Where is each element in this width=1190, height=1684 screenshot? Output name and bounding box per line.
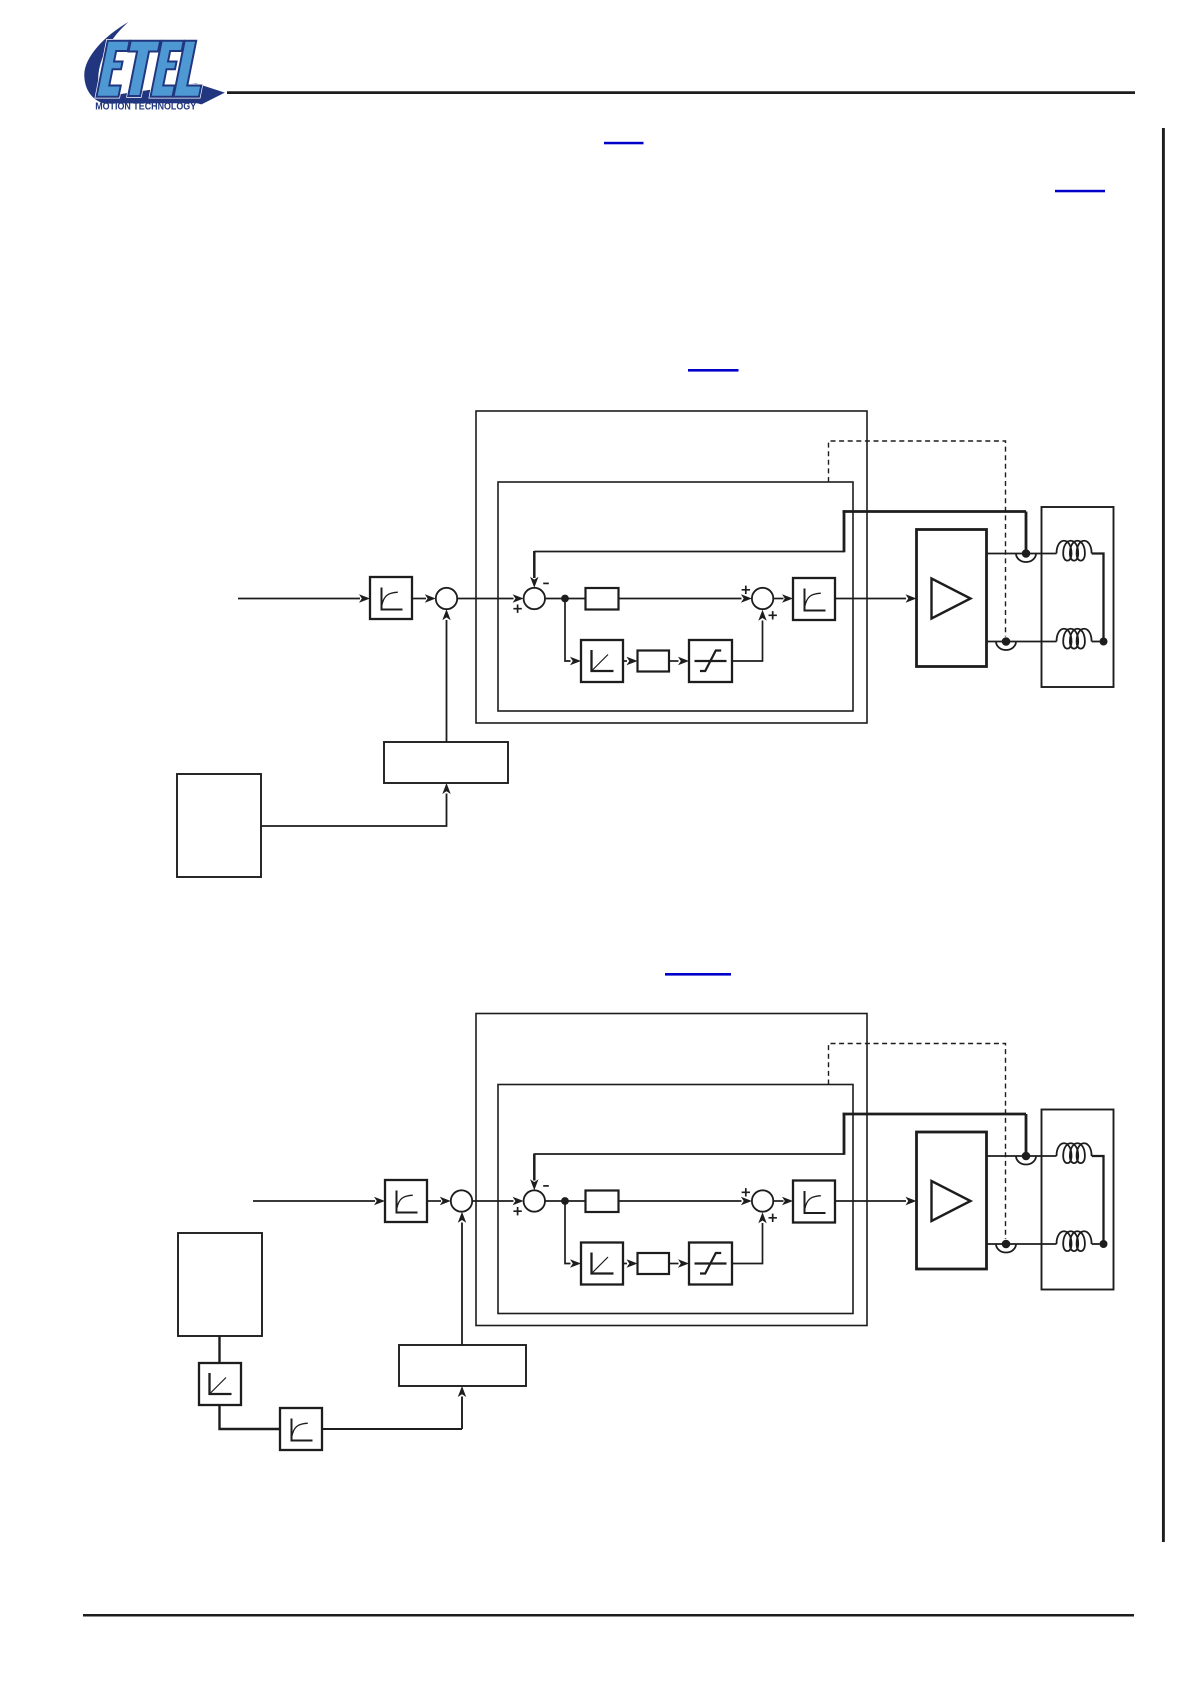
hyperlink underline 1	[604, 142, 644, 145]
d2 wire S2 to gain	[545, 1200, 586, 1202]
svg-text:MOTION TECHNOLOGY: MOTION TECHNOLOGY	[95, 102, 196, 113]
d1 wire G2 to saturation	[669, 660, 679, 662]
d1 arrowhead into integrator	[570, 657, 581, 665]
d2 wire S1 to S2	[472, 1200, 513, 1202]
d2 arrowhead down into S2	[530, 1179, 538, 1190]
hyperlink underline 2	[1055, 190, 1105, 193]
d2 plus sign lower-right at S3	[769, 1214, 777, 1222]
d1 summing junction S3	[752, 588, 773, 609]
d2 wire reference to integrator	[218, 1336, 220, 1363]
d2 plus sign at S2	[513, 1207, 521, 1215]
d1 amplifier triangle symbol	[932, 579, 971, 619]
d1 arrowhead into G2	[627, 657, 638, 665]
d2 gain block G2	[638, 1253, 670, 1274]
d1 saturation block	[689, 640, 732, 682]
d2 motor winding lower	[1057, 1231, 1092, 1251]
d2 wire branch down to integrator	[565, 1201, 571, 1264]
d1 input command wire	[238, 598, 360, 600]
d1 arrowhead into input filter	[359, 594, 370, 602]
d2 integrator block (chain)	[199, 1363, 241, 1405]
logo ETEL letters	[96, 41, 210, 97]
d2 winding junction node	[1100, 1240, 1108, 1248]
d1 summing junction S2	[524, 588, 545, 609]
d2 wire chain up to sensor block	[461, 1397, 463, 1430]
d1 arrowhead up into sensor block	[442, 783, 450, 794]
d2 connector terminal upper	[1016, 1152, 1036, 1165]
d2 wire F2 to power amplifier	[835, 1200, 906, 1202]
d2 wire filter to sensor column	[322, 1428, 462, 1430]
d2 outer position-loop box	[476, 1014, 867, 1326]
d1 wire S2 to gain	[545, 598, 586, 600]
d1 arrowhead into S3	[741, 594, 752, 602]
d1 phase wire lower	[987, 641, 1057, 643]
d1 encoder block	[177, 774, 261, 877]
d2 phase wire upper	[987, 1155, 1057, 1157]
d2 wire integrator to gain G2	[623, 1263, 627, 1265]
d2 low-pass filter block F2	[793, 1181, 835, 1223]
d1 arrowhead down into S2	[530, 577, 538, 588]
d1 summing junction S1	[436, 588, 457, 609]
d2 power amplifier block	[917, 1132, 987, 1269]
d1 minus sign at S2	[543, 582, 549, 584]
d1 winding junction node	[1100, 638, 1108, 646]
d1 junction node	[561, 595, 569, 603]
d1 wire F1 to S1	[412, 598, 426, 600]
d2 low-pass filter block (chain)	[280, 1408, 322, 1450]
d2 summing junction S2	[524, 1190, 545, 1211]
d2 motor winding upper	[1057, 1143, 1092, 1163]
d1 wire gain to S3	[619, 598, 742, 600]
d2 arrowhead into S3	[741, 1197, 752, 1205]
header rule	[227, 91, 1135, 94]
hyperlink underline 4 (Figure ref, diagram 2)	[665, 973, 731, 976]
d2 reference block	[178, 1233, 262, 1336]
d2 phase wire lower	[987, 1243, 1057, 1245]
d1 wire integrator to gain G2	[623, 660, 627, 662]
d2 summing junction S1	[451, 1190, 472, 1211]
d1 arrowhead into S2	[513, 594, 524, 602]
d2 winding lower link	[1092, 1243, 1100, 1245]
d1 arrowhead into power amplifier	[906, 594, 917, 602]
d2 wire integrator to filter	[220, 1404, 281, 1429]
d2 wire S3 to F2	[773, 1200, 783, 1202]
d1 power amplifier block	[917, 530, 987, 667]
d1 dashed current-measurement path	[829, 441, 1006, 637]
d2 position sensor block	[399, 1345, 526, 1386]
d1 plus sign lower-right at S3	[769, 611, 777, 619]
ETEL logo	[84, 22, 225, 113]
d1 current feedback drop to S2	[533, 551, 536, 578]
d2 current feedback riser	[843, 1113, 846, 1155]
d1 wire S3 to F2	[773, 598, 783, 600]
d1 position feedback wire to S1	[446, 620, 448, 742]
d1 current feedback wire horizontal	[534, 551, 844, 553]
d2 dashed current-measurement path	[829, 1044, 1006, 1240]
d2 saturation block	[689, 1243, 732, 1285]
d2 arrowhead into G2	[627, 1259, 638, 1267]
footer rule	[83, 1614, 1134, 1617]
d1 outer position-loop box	[476, 411, 867, 723]
logo baseline band and arrow	[100, 83, 225, 104]
d2 gain block G1	[586, 1191, 619, 1213]
d2 arrowhead into S2	[513, 1197, 524, 1205]
d1 connector terminal upper	[1016, 549, 1036, 562]
d1 low-pass filter block F2	[793, 578, 835, 620]
d2 winding link wire	[1092, 1156, 1104, 1244]
d2 junction node	[561, 1197, 569, 1205]
d2 input command wire	[253, 1200, 375, 1202]
d2 wire F1 to S1	[427, 1200, 441, 1202]
d1 wire encoder to sensor block	[261, 794, 447, 827]
d2 connector terminal lower	[996, 1240, 1016, 1253]
d2 minus sign at S2	[543, 1185, 549, 1187]
d2 summing junction S3	[752, 1190, 773, 1211]
d2 input low-pass filter block F1	[385, 1180, 427, 1222]
d2 wire G2 to saturation	[669, 1263, 679, 1265]
logo swoosh	[84, 22, 128, 104]
d1 inner current-loop box	[498, 482, 853, 711]
d2 arrowhead up into S1	[458, 1212, 466, 1223]
d2 arrowhead into integrator	[570, 1259, 581, 1267]
d1 current feedback riser	[843, 510, 846, 552]
hyperlink underline 3 (Figure ref, diagram 1)	[688, 369, 739, 372]
d2 arrowhead into F2	[782, 1197, 793, 1205]
d1 wire S1 to S2	[457, 598, 513, 600]
d2 arrowhead into input filter	[374, 1197, 385, 1205]
d1 arrowhead up into S3	[758, 610, 766, 621]
d1 arrowhead into S1	[425, 594, 436, 602]
d1 arrowhead into F2	[782, 594, 793, 602]
d1 wire saturation up to S3	[732, 621, 763, 662]
d1 arrowhead up into S1	[442, 609, 450, 620]
d1 input low-pass filter block F1	[370, 577, 412, 619]
d2 integrator block	[581, 1243, 623, 1285]
d1 winding lower link	[1092, 641, 1100, 643]
d1 winding link wire	[1092, 554, 1104, 642]
d1 plus sign at S2	[513, 605, 521, 613]
d1 integrator block	[581, 640, 623, 682]
d2 arrowhead into power amplifier	[906, 1197, 917, 1205]
d1 gain block G2	[638, 651, 670, 672]
d2 current sense wire from motor	[843, 1113, 1026, 1116]
d2 wire saturation up to S3	[732, 1223, 763, 1264]
d1 phase wire upper	[987, 553, 1057, 555]
d1 motor winding lower	[1057, 629, 1092, 649]
d2 arrowhead into saturation	[678, 1259, 689, 1267]
d2 arrowhead up into S3	[758, 1212, 766, 1223]
d2 wire gain to S3	[619, 1200, 742, 1202]
right margin rule	[1162, 128, 1165, 1542]
d1 gain block G1	[586, 588, 619, 610]
d2 motor block	[1042, 1110, 1114, 1290]
d2 amplifier triangle symbol	[932, 1181, 971, 1221]
d2 current feedback drop to S2	[533, 1154, 536, 1181]
d2 plus sign upper-left at S3	[742, 1188, 750, 1196]
d1 motor winding upper	[1057, 541, 1092, 561]
d1 current sense tap down to terminal	[1025, 512, 1028, 551]
d2 current sense tap down to terminal	[1025, 1114, 1028, 1153]
d2 position feedback wire to S1	[461, 1223, 463, 1346]
d1 arrowhead into saturation	[678, 657, 689, 665]
d1 motor block	[1042, 507, 1114, 687]
d1 connector terminal lower	[996, 637, 1016, 650]
d1 plus sign upper-left at S3	[742, 586, 750, 594]
d1 position sensor block	[384, 742, 508, 783]
d1 wire branch down to integrator	[565, 599, 571, 662]
d2 arrowhead up into sensor block	[458, 1386, 466, 1397]
d2 inner current-loop box	[498, 1085, 853, 1314]
d2 arrowhead into S1	[440, 1197, 451, 1205]
d2 current feedback wire horizontal	[534, 1153, 844, 1155]
d1 current sense wire from motor	[843, 510, 1026, 513]
d1 wire F2 to power amplifier	[835, 598, 906, 600]
